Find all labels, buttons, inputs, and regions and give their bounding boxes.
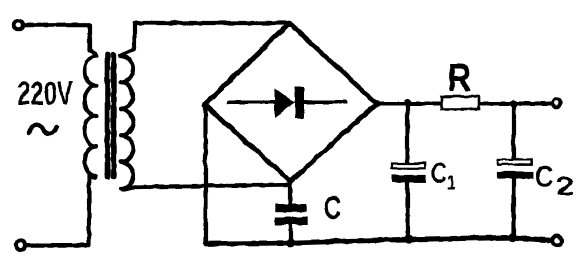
svg-text:C: C	[535, 159, 553, 194]
svg-text:C: C	[324, 189, 341, 225]
svg-text:2: 2	[556, 172, 574, 201]
svg-text:1: 1	[447, 169, 455, 193]
svg-text:220V: 220V	[17, 75, 73, 112]
svg-text:R: R	[447, 54, 470, 99]
svg-text:C: C	[431, 157, 446, 189]
